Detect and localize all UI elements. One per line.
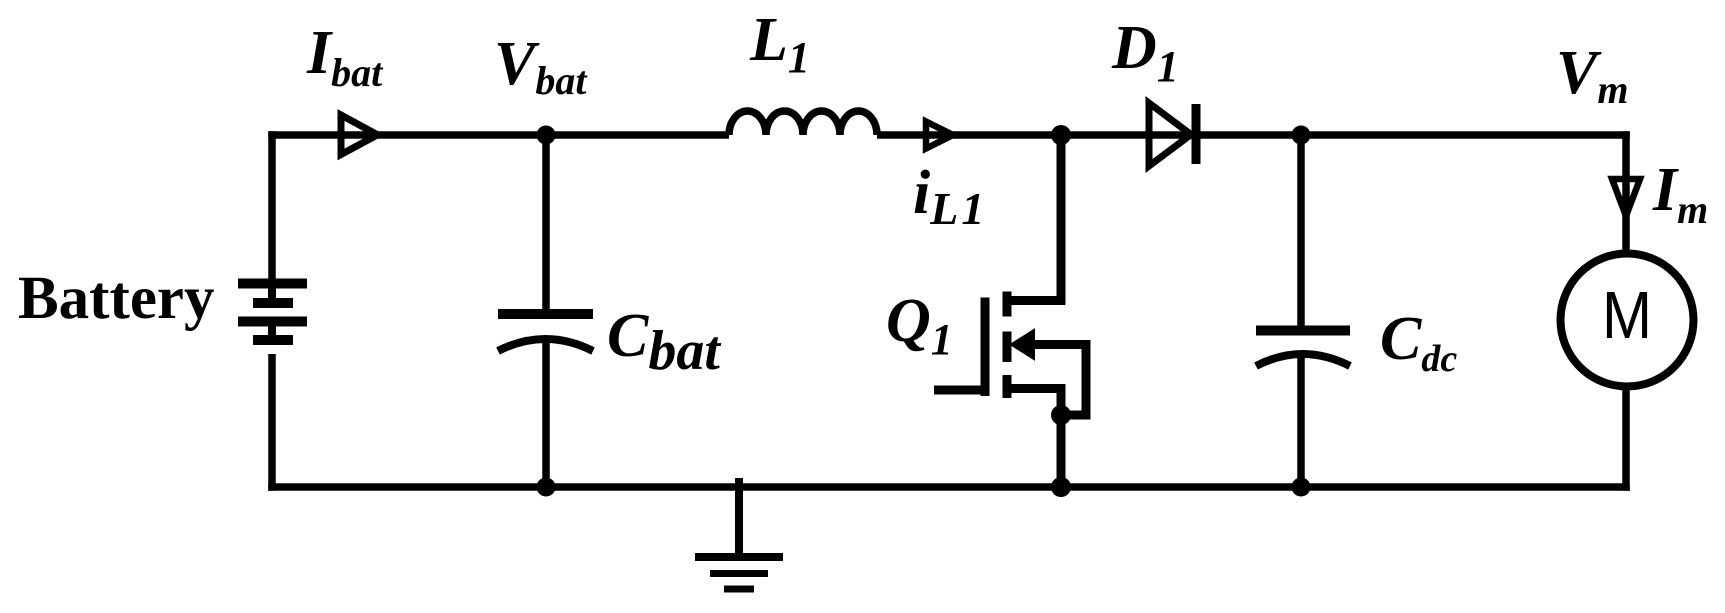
node Vbat top (537, 126, 556, 145)
wire motor bottom to bottom rail (1622, 388, 1630, 491)
wire left vertical lower (battery to bottom rail) (268, 354, 276, 491)
arrow Im (downward current arrow) (1612, 179, 1640, 216)
arrow iL1 (inductor current arrow) (926, 122, 953, 149)
transistor Q1 (MOSFET) (934, 135, 1086, 487)
diode D1 (1149, 103, 1196, 166)
body connection (1026, 345, 1086, 416)
wire left vertical upper (corner to battery) (268, 131, 276, 280)
wire top rail right (inductor to top-right corner) (877, 131, 1630, 139)
gate bar (981, 298, 990, 397)
wire top rail left (corner to inductor) (268, 131, 729, 139)
wire bottom rail (268, 483, 1630, 491)
channel bar top (1003, 292, 1012, 317)
channel bar bottom (1003, 375, 1012, 398)
source lead (1003, 389, 1061, 488)
svg-text:Battery: Battery (18, 265, 214, 332)
wire Cdc upper (1297, 135, 1305, 326)
node drain top (1051, 125, 1071, 145)
inductor L1 (729, 111, 877, 135)
channel bar middle (1003, 332, 1012, 363)
drain lead (1003, 135, 1061, 301)
node Cdc bottom (1292, 478, 1311, 497)
wire Cbat upper (542, 135, 550, 309)
node Cdc top (1292, 126, 1311, 145)
arrow Ibat (current arrow on top rail) (341, 115, 378, 155)
wire Cbat lower (542, 340, 550, 487)
battery BAT (plates) (238, 284, 307, 341)
node Cbat bottom (537, 478, 556, 497)
svg-text:M: M (1602, 278, 1652, 353)
wire Cdc lower (1297, 356, 1305, 487)
body-diode arrow of Q1 (1011, 330, 1034, 359)
capacitor Cbat (498, 314, 593, 351)
node Q1 source at bottom rail (1051, 477, 1071, 497)
ground (695, 478, 783, 589)
gate lead (934, 386, 981, 395)
wire right vertical (corner to motor top) (1622, 131, 1630, 252)
motor M (circle) (1561, 254, 1694, 387)
node Q1 source-body junction (1051, 405, 1071, 425)
capacitor Cdc (1256, 331, 1350, 367)
